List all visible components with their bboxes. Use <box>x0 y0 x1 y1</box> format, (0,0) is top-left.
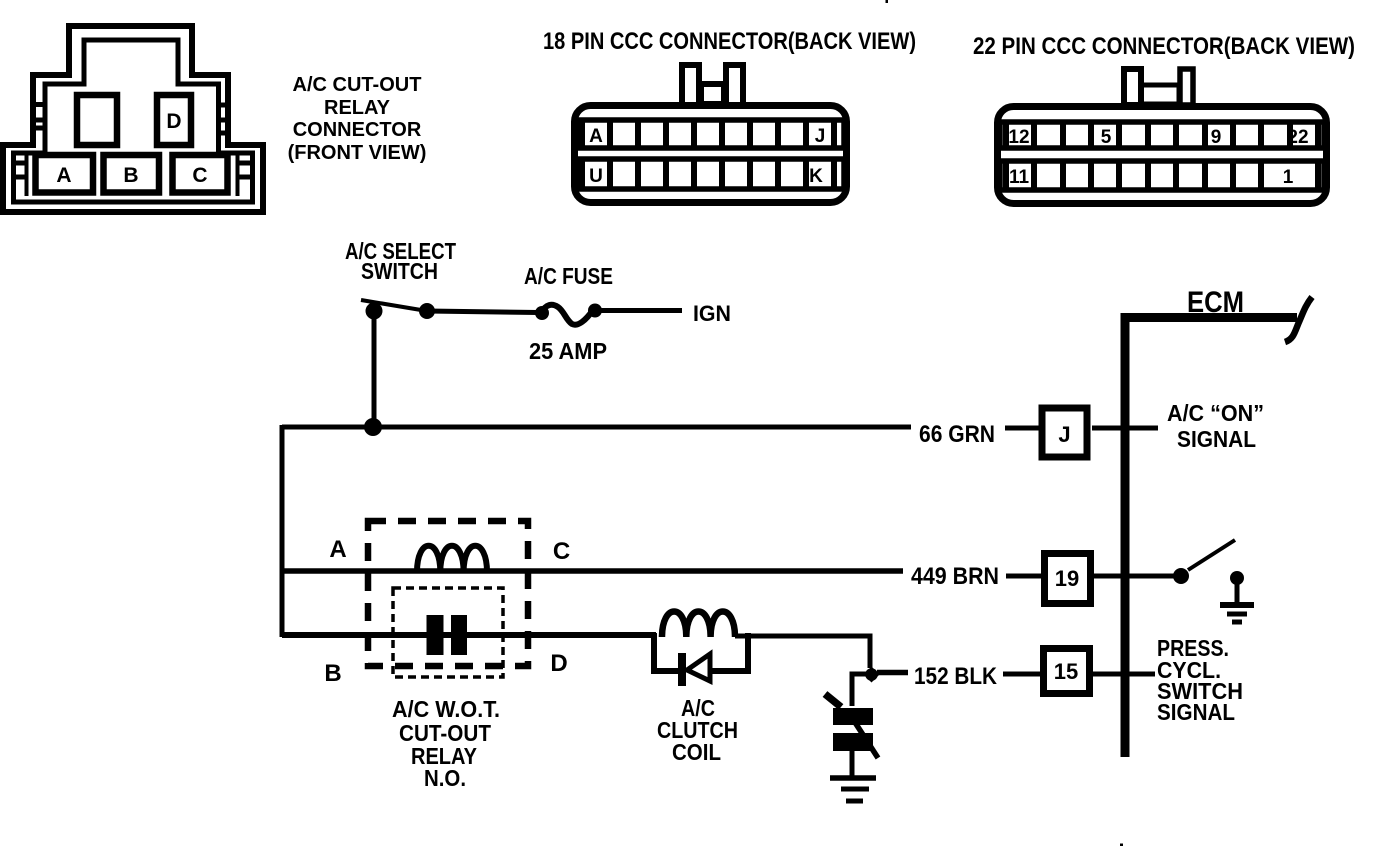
svg-text:IGN: IGN <box>693 301 731 326</box>
ECM break squiggle <box>1285 297 1312 342</box>
svg-text:9: 9 <box>1211 127 1222 148</box>
connector front-view unlabeled cavity <box>77 95 117 145</box>
svg-text:152 BLK: 152 BLK <box>914 663 998 690</box>
svg-text:RELAY: RELAY <box>324 97 391 119</box>
junction dot at 66 GRN wire <box>364 418 382 436</box>
wire: 449 BRN horizontal run A to C <box>282 568 903 574</box>
svg-text:449 BRN: 449 BRN <box>911 563 999 590</box>
pressure switch lever <box>1188 540 1235 570</box>
wire: terminal 19 to pressure switch <box>1094 574 1174 579</box>
18 pin connector pin row U-K <box>577 159 844 189</box>
pressure cycling switch lever diagonal <box>847 710 878 758</box>
svg-text:U: U <box>589 166 603 187</box>
terminal box 19 <box>1045 554 1091 604</box>
connector front-view cavity C <box>173 155 228 193</box>
svg-text:SIGNAL: SIGNAL <box>1177 426 1256 452</box>
wire: 152 BLK horizontal run B to D <box>282 632 656 638</box>
connector front-view cavity B <box>104 155 160 193</box>
switch S1 left contact dot <box>366 303 383 320</box>
connector: 18 pin CCC connector center bump <box>701 84 724 104</box>
svg-text:25 AMP: 25 AMP <box>529 338 607 364</box>
scan artifact dot bottom edge <box>1120 844 1123 846</box>
ground G1 stem <box>1235 578 1240 603</box>
svg-text:11: 11 <box>1009 167 1030 188</box>
scan artifact tick top edge <box>886 0 889 3</box>
svg-text:(FRONT VIEW): (FRONT VIEW) <box>288 142 427 164</box>
connector front-view side latch ticks <box>13 105 251 178</box>
22 pin connector pin row 12-22 <box>1000 122 1324 148</box>
svg-text:A: A <box>589 126 603 147</box>
wire: switch to ground G2 <box>850 751 855 776</box>
pressure cycling switch terminal block top <box>833 708 873 725</box>
connector front-view cavity D <box>157 95 191 145</box>
terminal box J <box>1042 408 1087 457</box>
svg-text:N.O.: N.O. <box>424 765 466 791</box>
label: PRESS. CYCL. SWITCH SIGNAL <box>1157 635 1243 725</box>
wire: 449 BRN label to terminal 19 <box>1006 574 1041 579</box>
connector: 18 pin CCC connector body <box>575 106 847 203</box>
svg-text:A/C FUSE: A/C FUSE <box>524 263 613 289</box>
connector: 18 pin CCC connector tab right <box>726 65 743 105</box>
diode D1 triangle <box>687 654 710 681</box>
svg-text:ECM: ECM <box>1187 286 1244 319</box>
svg-text:18 PIN CCC CONNECTOR(BACK VIEW: 18 PIN CCC CONNECTOR(BACK VIEW) <box>543 28 916 55</box>
wire: left vertical bus <box>280 425 285 637</box>
connector: 18 pin CCC connector tab left <box>682 65 699 105</box>
label: A/C CUT-OUT RELAY CONNECTOR (FRONT VIEW) <box>288 74 427 164</box>
connector front-view bottom end cavity walls <box>25 152 29 196</box>
svg-text:12: 12 <box>1008 127 1029 148</box>
wire: 152 BLK label to terminal 15 <box>1003 672 1040 677</box>
wire: 66 GRN label to terminal J <box>1005 426 1040 431</box>
svg-text:22: 22 <box>1287 127 1308 148</box>
wire: switch down to 66 GRN node <box>372 311 377 427</box>
junction dot at 152 BLK node <box>864 667 880 683</box>
svg-text:K: K <box>809 166 823 187</box>
wire: junction down to pressure cycling switch <box>852 674 866 706</box>
clutch coil left branch wire <box>654 633 679 671</box>
pressure cycling switch slash <box>825 694 841 707</box>
pressure cycling switch terminal block bottom <box>833 733 873 751</box>
connector: 22 pin CCC connector body <box>998 107 1327 204</box>
wire: clutch coil to junction <box>735 636 870 668</box>
wire: terminal J into ECM <box>1092 426 1158 431</box>
ECM horizontal bus line <box>1121 313 1297 322</box>
svg-text:B: B <box>324 660 341 687</box>
switch S1 right contact dot <box>419 303 435 319</box>
label: A/C ON SIGNAL <box>1167 400 1264 452</box>
svg-text:C: C <box>192 164 207 187</box>
svg-text:D: D <box>166 110 181 133</box>
label: A/C SELECT SWITCH <box>345 238 456 284</box>
relay K1: outer dashed case <box>368 521 528 666</box>
svg-text:66 GRN: 66 GRN <box>919 421 995 448</box>
svg-text:SWITCH: SWITCH <box>361 258 438 284</box>
diode D1 cathode bar <box>678 653 686 686</box>
wire: junction to 152 BLK label <box>877 670 908 676</box>
svg-text:22 PIN CCC CONNECTOR(BACK VIE: 22 PIN CCC CONNECTOR(BACK VIEW) <box>973 33 1355 60</box>
svg-text:J: J <box>1058 422 1070 447</box>
svg-text:19: 19 <box>1055 566 1079 591</box>
wire: 66 GRN horizontal run <box>282 425 911 430</box>
relay contact bar left <box>427 615 444 655</box>
connector: 22 pin CCC connector bridge <box>1141 85 1179 104</box>
svg-text:A: A <box>329 536 346 563</box>
connector front-view inner shell <box>14 40 253 202</box>
svg-text:A/C CUT-OUT: A/C CUT-OUT <box>293 74 422 96</box>
ECM vertical bus line <box>1121 313 1130 757</box>
wire: switch to fuse <box>427 311 538 313</box>
wire: fuse to IGN <box>598 308 682 313</box>
fuse F1 wavy element <box>541 305 593 325</box>
svg-text:SIGNAL: SIGNAL <box>1157 699 1235 725</box>
clutch coil L1 winding <box>662 612 735 638</box>
22 pin connector pin row 11-1 <box>1000 161 1324 190</box>
fuse F1 right dot <box>588 304 602 318</box>
svg-text:15: 15 <box>1054 659 1078 684</box>
clutch coil right branch wire <box>710 633 748 671</box>
ground G1 bars <box>1220 605 1254 622</box>
connector front-view cavity A <box>36 155 94 193</box>
svg-text:1: 1 <box>1283 167 1294 188</box>
svg-text:D: D <box>550 650 567 677</box>
relay K1: inner dashed contact box <box>393 588 503 677</box>
svg-text:5: 5 <box>1101 127 1112 148</box>
label: A/C W.O.T. CUT-OUT RELAY N.O. <box>392 696 500 791</box>
label: A/C CLUTCH COIL <box>657 695 738 765</box>
svg-text:CONNECTOR: CONNECTOR <box>293 119 422 141</box>
connector: 22 pin CCC connector tab right <box>1180 69 1193 105</box>
svg-text:A/C “ON”: A/C “ON” <box>1167 400 1264 426</box>
relay contact bar right <box>451 615 467 655</box>
relay coil winding <box>417 546 487 572</box>
svg-text:C: C <box>553 538 570 565</box>
svg-text:COIL: COIL <box>672 739 721 765</box>
svg-text:A: A <box>56 164 71 187</box>
wire: terminal 15 into ECM <box>1093 672 1155 677</box>
svg-text:J: J <box>815 126 826 147</box>
svg-text:A/C W.O.T.: A/C W.O.T. <box>392 696 500 722</box>
ground G2 bars <box>830 778 876 801</box>
pressure switch contact dot <box>1173 568 1189 584</box>
switch S1: A/C select switch lever <box>361 300 427 311</box>
fuse F1: A/C fuse left dot <box>535 306 549 320</box>
terminal box 15 <box>1044 649 1090 694</box>
ground G1 terminal dot <box>1230 571 1244 585</box>
svg-text:B: B <box>123 164 138 187</box>
connector: A/C cut-out relay connector (front view) outer shell <box>3 26 263 212</box>
18 pin connector pin row A-J <box>577 120 844 148</box>
connector: 22 pin CCC connector tab left <box>1124 69 1141 105</box>
